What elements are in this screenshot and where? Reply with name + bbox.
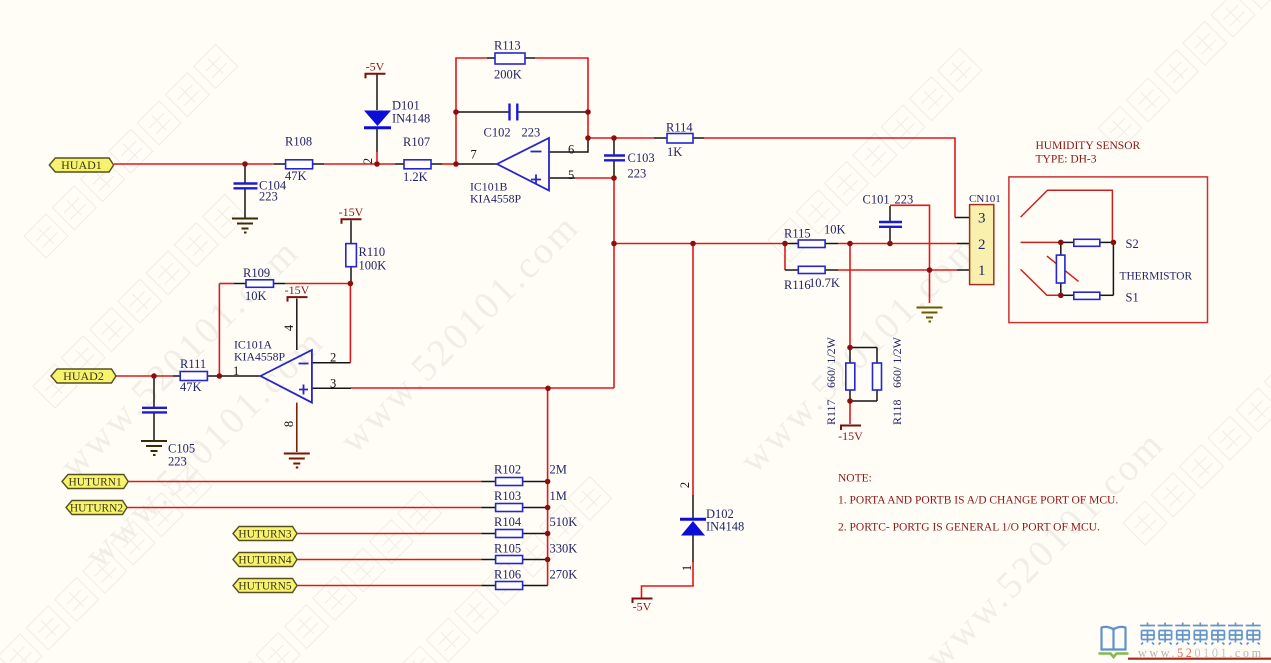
svg-text:-15V: -15V xyxy=(838,429,863,443)
svg-text:C103: C103 xyxy=(628,151,655,165)
svg-text:223: 223 xyxy=(259,190,278,204)
svg-text:R103: R103 xyxy=(494,489,521,503)
svg-text:-5V: -5V xyxy=(633,600,652,614)
svg-text:HUTURN5: HUTURN5 xyxy=(238,581,291,593)
svg-text:7: 7 xyxy=(471,148,477,162)
svg-text:HUTURN1: HUTURN1 xyxy=(69,477,122,489)
svg-text:C102: C102 xyxy=(484,126,511,140)
svg-text:223: 223 xyxy=(895,193,914,207)
svg-text:R106: R106 xyxy=(494,568,521,582)
svg-text:S2: S2 xyxy=(1126,237,1139,251)
svg-text:330K: 330K xyxy=(550,542,578,556)
svg-text:223: 223 xyxy=(522,126,541,140)
svg-text:HUTURN3: HUTURN3 xyxy=(238,529,291,541)
svg-text:R110: R110 xyxy=(359,245,386,259)
svg-text:1K: 1K xyxy=(667,145,682,159)
svg-text:270K: 270K xyxy=(550,568,578,582)
svg-text:KIA4558P: KIA4558P xyxy=(234,350,286,364)
svg-text:-15V: -15V xyxy=(339,205,364,219)
svg-text:R118: R118 xyxy=(890,399,904,425)
svg-text:-15V: -15V xyxy=(285,283,310,297)
svg-text:660/ 1/2W: 660/ 1/2W xyxy=(824,336,838,388)
svg-text:HUTURN4: HUTURN4 xyxy=(238,555,291,567)
svg-text:47K: 47K xyxy=(285,169,307,183)
svg-text:510K: 510K xyxy=(550,515,578,529)
svg-text:R109: R109 xyxy=(243,266,270,280)
svg-text:KIA4558P: KIA4558P xyxy=(470,192,522,206)
svg-text:2. PORTC- PORTG IS GENERAL 1/O: 2. PORTC- PORTG IS GENERAL 1/O PORT OF M… xyxy=(838,522,1100,534)
svg-text:IN4148: IN4148 xyxy=(706,520,744,534)
svg-text:HUTURN2: HUTURN2 xyxy=(70,503,123,515)
svg-text:TYPE: DH-3: TYPE: DH-3 xyxy=(1036,154,1097,166)
svg-text:HUAD2: HUAD2 xyxy=(63,369,104,383)
svg-text:200K: 200K xyxy=(494,68,522,82)
svg-text:R102: R102 xyxy=(494,463,521,477)
svg-text:NOTE:: NOTE: xyxy=(838,473,872,485)
svg-text:1. PORTA AND PORTB IS A/D CHAN: 1. PORTA AND PORTB IS A/D CHANGE PORT OF… xyxy=(838,495,1118,507)
svg-text:CN101: CN101 xyxy=(969,193,1001,205)
svg-text:R117: R117 xyxy=(824,399,838,425)
svg-text:HUAD1: HUAD1 xyxy=(61,158,102,172)
svg-text:1M: 1M xyxy=(550,489,567,503)
svg-text:THERMISTOR: THERMISTOR xyxy=(1120,271,1193,283)
svg-text:2: 2 xyxy=(678,482,692,488)
svg-text:C105: C105 xyxy=(168,442,195,456)
svg-text:1: 1 xyxy=(680,565,694,571)
svg-text:R113: R113 xyxy=(494,39,521,53)
svg-text:10K: 10K xyxy=(824,223,846,237)
svg-text:R107: R107 xyxy=(403,135,430,149)
svg-text:47K: 47K xyxy=(180,380,202,394)
svg-text:10.7K: 10.7K xyxy=(809,276,840,290)
svg-text:10K: 10K xyxy=(245,289,267,303)
svg-text:R104: R104 xyxy=(494,515,522,529)
svg-text:www.520101.com: www.520101.com xyxy=(1138,646,1264,660)
svg-text:4: 4 xyxy=(282,324,296,331)
svg-text:R105: R105 xyxy=(494,542,521,556)
svg-text:5: 5 xyxy=(568,168,574,182)
svg-text:660/ 1/2W: 660/ 1/2W xyxy=(890,336,904,388)
svg-text:R111: R111 xyxy=(180,357,206,371)
svg-text:2M: 2M xyxy=(550,463,567,477)
svg-text:S1: S1 xyxy=(1126,291,1139,305)
svg-text:3: 3 xyxy=(978,211,986,227)
svg-text:-5V: -5V xyxy=(366,60,385,74)
svg-text:HUMIDITY SENSOR: HUMIDITY SENSOR xyxy=(1036,140,1141,152)
svg-text:IN4148: IN4148 xyxy=(392,112,430,126)
svg-text:C101: C101 xyxy=(863,193,890,207)
svg-text:100K: 100K xyxy=(359,259,387,273)
svg-text:223: 223 xyxy=(168,455,187,469)
svg-text:3: 3 xyxy=(330,377,336,391)
svg-text:2: 2 xyxy=(978,237,986,253)
svg-text:8: 8 xyxy=(282,421,296,427)
svg-text:R115: R115 xyxy=(784,227,811,241)
svg-text:2: 2 xyxy=(361,158,375,164)
svg-text:R108: R108 xyxy=(285,135,312,149)
svg-text:D101: D101 xyxy=(392,99,420,113)
svg-text:R114: R114 xyxy=(666,121,693,135)
svg-text:R116: R116 xyxy=(784,278,811,292)
svg-text:1: 1 xyxy=(978,263,986,279)
svg-text:2: 2 xyxy=(330,351,336,365)
svg-text:1.2K: 1.2K xyxy=(403,170,428,184)
svg-text:223: 223 xyxy=(628,167,647,181)
svg-text:1: 1 xyxy=(233,364,239,378)
svg-text:6: 6 xyxy=(568,143,574,157)
